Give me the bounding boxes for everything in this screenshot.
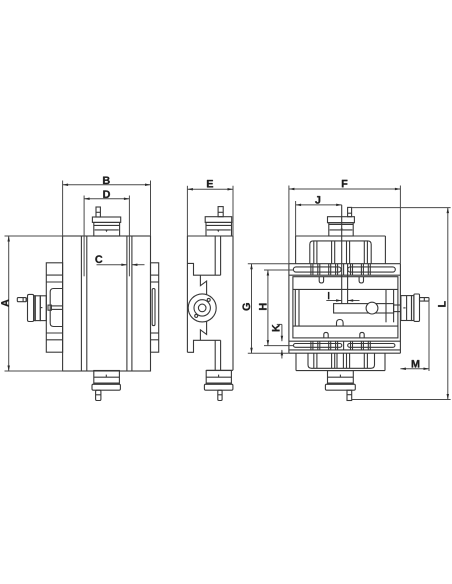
- front bottom dial stem: [96, 390, 101, 400]
- screw end bump on pocket floor: [337, 320, 344, 327]
- label L: [438, 301, 445, 307]
- dim E: [187, 188, 233, 190]
- table side edges upper: [295, 236, 297, 264]
- right dial stem: [420, 298, 430, 302]
- label B: [103, 177, 110, 184]
- ext lines B: [62, 181, 64, 237]
- dim K lower: [281, 350, 283, 359]
- handle hole lower: [195, 314, 198, 317]
- handwheel outer circle: [188, 294, 216, 322]
- label F: [342, 180, 347, 187]
- saddle screw notch bottom right: [360, 332, 364, 338]
- side top dial body: [206, 222, 232, 236]
- band pill right upper: [348, 267, 396, 272]
- band slot lines upper: [311, 264, 370, 276]
- front bottom dial body: [94, 371, 120, 385]
- slide left edge: [288, 264, 290, 354]
- side bottom dial flange: [204, 384, 233, 390]
- cross screw shaft: [394, 304, 401, 306]
- side left edge: [186, 236, 188, 352]
- right dial plate 3: [414, 294, 420, 321]
- top dial body (top view): [329, 223, 353, 236]
- handle hole upper: [207, 298, 210, 301]
- screw shaft upper: [214, 236, 216, 275]
- bottom band top line: [289, 340, 401, 342]
- ext line J: [295, 201, 297, 236]
- T-slot lines upper boss: [313, 241, 315, 264]
- label D: [103, 190, 110, 197]
- dim J: [296, 204, 342, 206]
- dim H: [267, 270, 269, 346]
- table side edges lower: [295, 353, 297, 370]
- bottom band bottom line: [289, 349, 401, 351]
- band pill right lower: [348, 344, 395, 348]
- slot centerlines front: [83, 196, 85, 277]
- dim I right: [348, 300, 360, 302]
- saddle screw U-notch top left: [319, 277, 323, 283]
- label H: [259, 304, 266, 310]
- ext lines A: [5, 235, 63, 237]
- leadscrew nut tab: [48, 305, 51, 310]
- side bottom edge: [206, 369, 233, 371]
- front top dial stem: [96, 207, 100, 217]
- front bottom dial flange: [92, 384, 120, 390]
- saddle pocket bottom: [293, 325, 398, 327]
- front top dial body: [94, 222, 120, 236]
- side step lower: [187, 340, 220, 352]
- dim K upper: [281, 324, 283, 341]
- bottom dial stem (top view): [347, 390, 352, 400]
- top dial flange (top view): [328, 217, 355, 223]
- dim L: [447, 208, 449, 400]
- T-slot lines front: [80, 236, 82, 371]
- table boss rounded rect lower: [308, 353, 375, 368]
- right dial plate 1: [401, 296, 412, 321]
- T-slot lines lower boss: [313, 353, 315, 368]
- dim C leader right: [132, 264, 145, 266]
- dim A: [8, 236, 10, 371]
- bottom dial body (top view): [328, 371, 354, 385]
- right bracket slot pill: [152, 289, 155, 326]
- break line lower: [200, 321, 206, 340]
- ext lines G: [248, 263, 289, 265]
- ext lines H: [264, 269, 293, 271]
- crank shaft: [26, 298, 27, 301]
- handwheel mid circle: [194, 300, 210, 316]
- saddle pocket top: [293, 288, 398, 290]
- handwheel hub circle: [198, 304, 206, 312]
- band slot lines lower: [311, 341, 370, 350]
- dim I left: [326, 300, 341, 302]
- saddle screw notch bottom left: [324, 332, 328, 338]
- label E: [207, 180, 213, 187]
- vertical leadscrew lines: [341, 205, 343, 304]
- side bottom dial stem: [218, 390, 222, 400]
- slide band top line: [289, 263, 401, 265]
- side top edge: [187, 235, 233, 237]
- dim M: [400, 368, 429, 370]
- left bracket pocket: [50, 289, 62, 327]
- dim K elbow: [277, 323, 282, 325]
- slide right edge: [399, 264, 401, 354]
- dim D: [84, 198, 129, 200]
- ext lines F: [288, 186, 290, 264]
- pocket wall lines right: [385, 289, 387, 322]
- nut block: [334, 304, 394, 313]
- dim F: [289, 188, 401, 190]
- left bracket plate: [46, 263, 62, 352]
- table boss rounded rect upper: [310, 241, 371, 264]
- table bottom edge: [296, 370, 385, 372]
- dim G: [251, 264, 253, 354]
- front body outline: [63, 236, 151, 371]
- side top dial flange: [205, 217, 232, 223]
- side top dial stem: [218, 207, 223, 217]
- front top dial flange: [92, 217, 120, 222]
- label J: [315, 196, 320, 204]
- table top edge: [296, 235, 386, 237]
- saddle screw U-notch top right: [359, 277, 363, 283]
- label M: [412, 360, 420, 367]
- band pill left upper: [293, 267, 341, 272]
- bottom dial flange (top view): [325, 384, 355, 390]
- ext line M: [428, 301, 430, 371]
- label K: [272, 324, 279, 331]
- dim C leader left: [97, 264, 127, 266]
- side step upper: [187, 263, 220, 275]
- saddle outline: [293, 277, 398, 338]
- crank dial plates: [28, 294, 34, 321]
- label I: [328, 292, 330, 299]
- dim B: [63, 184, 151, 186]
- label G: [242, 303, 250, 310]
- slide bottom line: [289, 352, 401, 354]
- side bottom dial body: [206, 371, 231, 385]
- right dial plate 2: [412, 296, 414, 321]
- right bracket plate: [151, 263, 159, 352]
- pocket wall lines left: [294, 289, 296, 326]
- crank knob: [17, 298, 26, 302]
- band pill left lower: [294, 344, 342, 348]
- ext lines L: [352, 207, 451, 209]
- label A: [1, 299, 8, 306]
- band bottom line upper: [289, 274, 401, 276]
- screw shaft lower: [214, 340, 216, 370]
- break line upper: [200, 275, 206, 294]
- top dial stem (top view): [348, 207, 352, 216]
- label C: [95, 255, 102, 263]
- ext lines E: [186, 186, 188, 236]
- side right edge: [232, 236, 234, 370]
- nut circle: [366, 302, 378, 314]
